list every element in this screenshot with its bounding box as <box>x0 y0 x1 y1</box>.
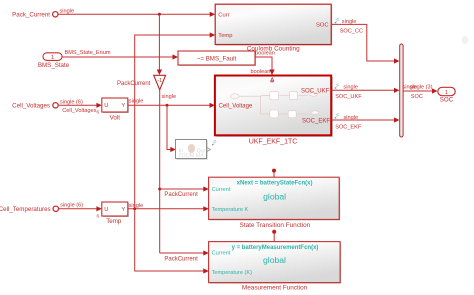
function port dot (Measurement) <box>272 230 276 242</box>
node junction Temp trunk <box>133 207 136 210</box>
block Coulomb Counting <box>215 4 332 52</box>
wire Cell_Temperatures to Temp selector <box>59 206 102 211</box>
svg-text:SOC_EKF: SOC_EKF <box>335 124 362 130</box>
selector Volt <box>96 98 128 121</box>
svg-text:Y: Y <box>121 103 125 109</box>
svg-text:Current: Current <box>212 250 231 256</box>
mux M1 <box>400 44 403 137</box>
svg-text:single (3): single (3) <box>410 85 433 91</box>
UKF port texts <box>219 88 331 124</box>
logging badge (SOC_CC) <box>335 18 340 23</box>
svg-text:Temperature (K): Temperature (K) <box>212 270 253 276</box>
block Measurement Function <box>209 242 342 292</box>
svg-text:6: 6 <box>96 109 99 114</box>
function port dot (State Transition) <box>272 169 276 178</box>
svg-text:single: single <box>162 94 177 100</box>
inport Cell_Temperatures <box>0 206 59 213</box>
wire Cell_Voltages to Volt selector <box>58 103 102 108</box>
svg-text:U: U <box>104 207 108 213</box>
node junction PackCurrent branch <box>158 13 161 16</box>
faint watermark smudge <box>462 36 469 44</box>
wire Temp trunk down to Measurement Temperature <box>135 209 209 274</box>
wire Temp to State Transition Temperature K <box>128 206 209 211</box>
gain G1 (-1) <box>154 14 166 90</box>
wire PackCurrent to Measurement Current <box>160 250 209 255</box>
inport BMS_State <box>38 53 70 69</box>
wire PackCurrent vertical trunk <box>159 90 161 253</box>
wire Volt branch to display block <box>167 105 176 152</box>
svg-text:Temperature K: Temperature K <box>212 207 249 213</box>
svg-text:Temp: Temp <box>106 218 122 225</box>
wire BMS_State to BMS_Fault <box>62 54 178 59</box>
svg-text:SOC: SOC <box>440 97 454 104</box>
svg-text:Curr: Curr <box>218 12 229 18</box>
wire Pack_Current to Coulomb Curr <box>58 12 215 17</box>
svg-text:Temp: Temp <box>218 33 232 39</box>
svg-text:UKF_EKF_1TC: UKF_EKF_1TC <box>249 138 298 145</box>
outport SOC <box>438 87 455 103</box>
wire PackCurrent to State Transition Current <box>160 186 209 191</box>
svg-text:single: single <box>129 203 144 209</box>
svg-text:6: 6 <box>96 213 99 218</box>
svg-text:PackCurrent: PackCurrent <box>164 192 198 198</box>
block State Transition Function <box>209 177 341 229</box>
enable port glyph (UKF) <box>271 78 274 82</box>
svg-text:single: single <box>129 98 144 104</box>
inport Cell_Voltages <box>12 103 58 110</box>
svg-text:SOC: SOC <box>411 94 423 100</box>
svg-text:single (6): single (6) <box>60 203 83 209</box>
compare block BMS_Fault <box>178 51 256 66</box>
svg-text:Pack_Current: Pack_Current <box>12 12 50 19</box>
svg-text:single (6): single (6) <box>60 99 83 105</box>
svg-text:-1: -1 <box>157 78 162 84</box>
svg-text:Cell_Voltage: Cell_Voltage <box>219 104 253 110</box>
svg-text:Y: Y <box>121 207 125 213</box>
svg-text:1: 1 <box>445 90 448 96</box>
selector Temp <box>96 202 128 225</box>
wire SOC_EKF to Mux <box>331 117 399 122</box>
block SOC display (masked) <box>176 140 211 160</box>
svg-text:boolean: boolean <box>251 69 271 75</box>
logging badge (SOC_EKF) <box>335 114 340 119</box>
wire BMS_Fault to UKF enable <box>255 57 275 75</box>
svg-text:SOC_UKF: SOC_UKF <box>335 94 362 100</box>
inport Pack_Current <box>12 12 58 19</box>
wire SOC_CC from Coulomb to Mux <box>331 24 399 63</box>
svg-text:BMS_State: BMS_State <box>38 62 70 69</box>
svg-text:BMS_State_Enum: BMS_State_Enum <box>65 50 111 56</box>
svg-text:1: 1 <box>51 55 54 61</box>
node junction Volt to SOC display <box>166 104 169 107</box>
svg-text:Current: Current <box>212 187 231 193</box>
svg-text:Coulomb Counting: Coulomb Counting <box>247 46 300 53</box>
svg-text:global: global <box>263 255 286 265</box>
svg-text:ZOOM MA: ZOOM MA <box>178 153 204 159</box>
svg-text:Volt: Volt <box>110 114 121 121</box>
svg-text:Measurement Function: Measurement Function <box>242 285 308 292</box>
svg-text:U: U <box>104 103 108 109</box>
svg-text:Cell_Voltages: Cell_Voltages <box>12 103 50 110</box>
wire Volt to UKF Cell_Voltage <box>128 103 215 108</box>
svg-text:y = batteryMeasurementFcn(x): y = batteryMeasurementFcn(x) <box>232 245 319 251</box>
svg-text:single: single <box>60 9 75 15</box>
svg-text:single: single <box>343 84 358 90</box>
svg-text:SOC_CC: SOC_CC <box>340 28 363 34</box>
svg-text:single: single <box>342 19 357 25</box>
svg-text:Cell_Temperatures: Cell_Temperatures <box>0 206 51 213</box>
wire Mux to SOC outport <box>403 88 437 93</box>
wire SOC_UKF to Mux <box>331 88 399 93</box>
svg-text:Cell_Voltages: Cell_Voltages <box>62 108 96 114</box>
svg-text:State Transition Function: State Transition Function <box>240 222 311 229</box>
node junction PackCurrent to State Transition <box>158 188 161 191</box>
svg-text:xNext = batteryStateFcn(x): xNext = batteryStateFcn(x) <box>237 180 313 186</box>
svg-text:PackCurrent: PackCurrent <box>117 81 151 87</box>
wire Temp trunk up to Coulomb Temp <box>135 32 216 208</box>
block UKF_EKF_1TC <box>215 76 333 146</box>
svg-text:SOC: SOC <box>316 23 329 29</box>
svg-text:SOC_UKF: SOC_UKF <box>301 88 330 94</box>
svg-text:single: single <box>344 115 359 121</box>
logging badge (display block) <box>212 140 217 145</box>
logging badge (SOC_UKF) <box>335 84 340 89</box>
UKF interior preview <box>230 92 318 118</box>
svg-text:SOC_EKF: SOC_EKF <box>302 118 330 124</box>
svg-text:PackCurrent: PackCurrent <box>164 257 198 263</box>
svg-text:~= BMS_Fault: ~= BMS_Fault <box>197 55 237 62</box>
svg-text:global: global <box>263 191 286 201</box>
